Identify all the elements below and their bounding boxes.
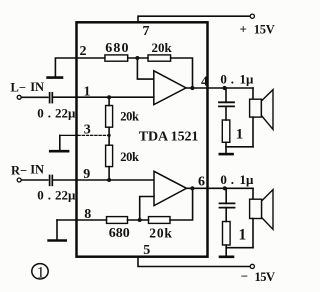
- svg-text:1: 1: [37, 264, 45, 281]
- svg-text:1μ: 1μ: [240, 72, 255, 87]
- svg-text:8: 8: [84, 207, 91, 222]
- svg-text:22μ: 22μ: [55, 106, 76, 121]
- svg-text:20k: 20k: [149, 226, 172, 241]
- svg-text:+: +: [240, 22, 247, 37]
- svg-text:.: .: [231, 172, 234, 187]
- svg-text:6: 6: [198, 174, 205, 189]
- svg-text:IN: IN: [30, 163, 44, 177]
- svg-text:20k: 20k: [152, 40, 173, 55]
- svg-text:1: 1: [239, 227, 247, 244]
- svg-text:L−: L−: [11, 80, 26, 94]
- svg-text:20k: 20k: [120, 109, 139, 123]
- svg-text:1μ: 1μ: [240, 172, 255, 187]
- svg-text:5: 5: [143, 243, 150, 258]
- svg-text:22μ: 22μ: [55, 187, 76, 202]
- svg-text:0: 0: [37, 187, 44, 202]
- svg-text:1: 1: [236, 126, 244, 142]
- svg-text:680: 680: [105, 41, 129, 56]
- svg-text:0: 0: [220, 172, 227, 187]
- svg-text:680: 680: [109, 226, 130, 241]
- svg-text:TDA 1521: TDA 1521: [139, 130, 199, 145]
- svg-text:R−: R−: [11, 163, 27, 177]
- svg-text:IN: IN: [30, 80, 44, 94]
- svg-text:3: 3: [84, 122, 91, 137]
- svg-text:15V: 15V: [255, 270, 276, 284]
- svg-text:1: 1: [84, 84, 91, 99]
- svg-text:−: −: [241, 269, 248, 284]
- svg-text:2: 2: [80, 44, 87, 59]
- svg-text:.: .: [48, 106, 51, 121]
- svg-text:9: 9: [83, 167, 90, 182]
- svg-text:0: 0: [220, 72, 227, 87]
- svg-text:15V: 15V: [254, 23, 275, 37]
- svg-text:20k: 20k: [120, 150, 139, 164]
- svg-text:0: 0: [37, 106, 44, 121]
- svg-text:4: 4: [201, 74, 208, 89]
- svg-text:7: 7: [143, 24, 150, 39]
- svg-text:.: .: [48, 187, 51, 202]
- svg-text:.: .: [231, 72, 234, 87]
